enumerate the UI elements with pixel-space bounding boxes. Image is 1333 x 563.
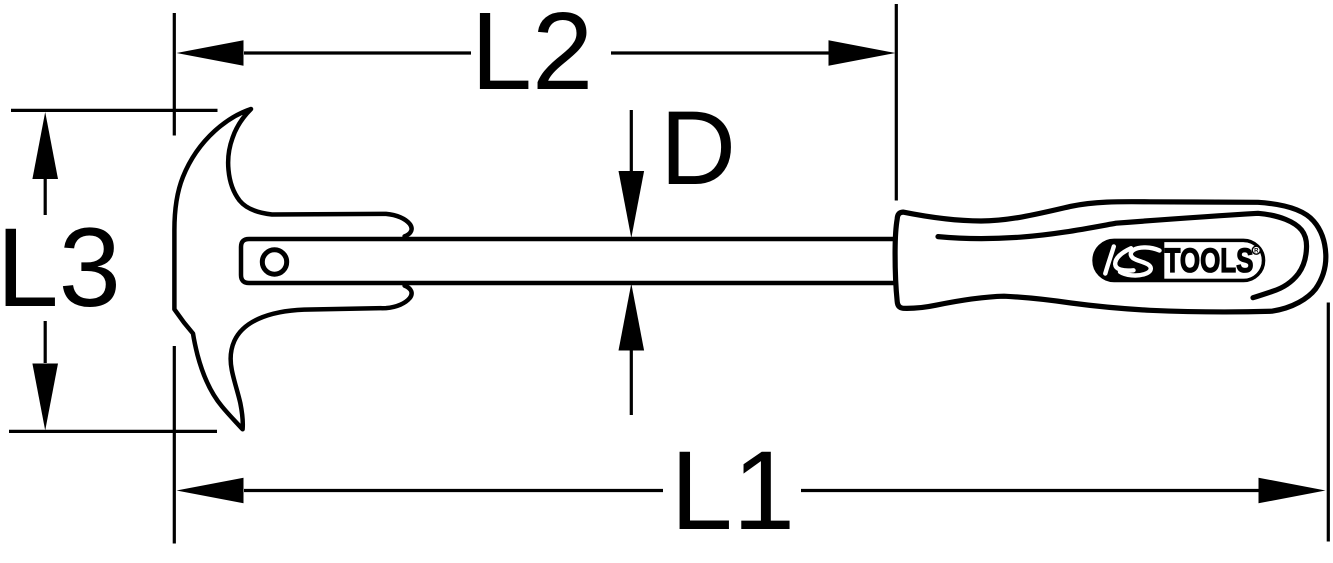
svg-text:D: D xyxy=(660,90,736,207)
dimension line L2 xyxy=(244,51,471,54)
arrowhead D top (down) xyxy=(619,171,645,238)
shaft xyxy=(241,239,898,283)
handle outline xyxy=(895,202,1326,312)
shaft hole xyxy=(262,250,286,274)
logo registered mark xyxy=(1252,246,1260,254)
extension line left (shared by L2 top / L1 bottom) xyxy=(173,13,176,136)
logo KS script xyxy=(1105,247,1159,276)
extension line right of L2 at handle start xyxy=(895,4,898,201)
arrowhead L1 left xyxy=(177,478,244,504)
arrowhead L3 up xyxy=(32,112,58,179)
KS TOOLS logo pill xyxy=(1094,240,1264,280)
logo white right half xyxy=(1164,242,1262,279)
dimension line D xyxy=(630,110,633,171)
svg-text:L2: L2 xyxy=(471,0,593,113)
svg-text:R: R xyxy=(1254,249,1259,255)
arrowhead L3 down xyxy=(32,364,58,431)
logo pill outline xyxy=(1094,240,1264,280)
dimension line L1 xyxy=(244,489,663,492)
extension line bottom of L3 xyxy=(9,430,217,433)
svg-text:TOOLS: TOOLS xyxy=(1165,242,1254,280)
arrowhead L2 right xyxy=(829,40,896,66)
arrowhead D bottom (up) xyxy=(619,284,645,351)
arrowhead L2 left xyxy=(177,40,244,66)
scraper head (double hook) xyxy=(174,109,411,429)
handle inner contour line xyxy=(938,213,1307,297)
svg-text:L1: L1 xyxy=(670,428,795,553)
extension line right of L1 xyxy=(1327,303,1330,542)
extension line top of L3 xyxy=(11,109,218,112)
svg-text:L3: L3 xyxy=(0,205,121,330)
dimension line L3 xyxy=(44,178,47,215)
arrowhead L1 right xyxy=(1259,478,1326,504)
